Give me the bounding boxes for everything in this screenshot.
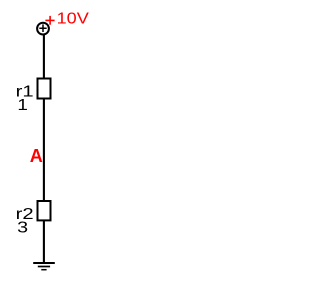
svg-text:A: A bbox=[30, 145, 43, 166]
resistor r1 bbox=[38, 79, 51, 99]
svg-text:3: 3 bbox=[17, 219, 28, 236]
ground bbox=[33, 263, 55, 270]
voltage source V1 bbox=[37, 23, 49, 35]
V1 polarity + (red) bbox=[45, 16, 54, 25]
V1 plus marker bbox=[39, 24, 46, 32]
resistor r2 bbox=[38, 201, 51, 220]
wire bbox=[43, 35, 45, 264]
svg-text:1: 1 bbox=[17, 97, 28, 114]
svg-text:10V: 10V bbox=[57, 11, 90, 28]
